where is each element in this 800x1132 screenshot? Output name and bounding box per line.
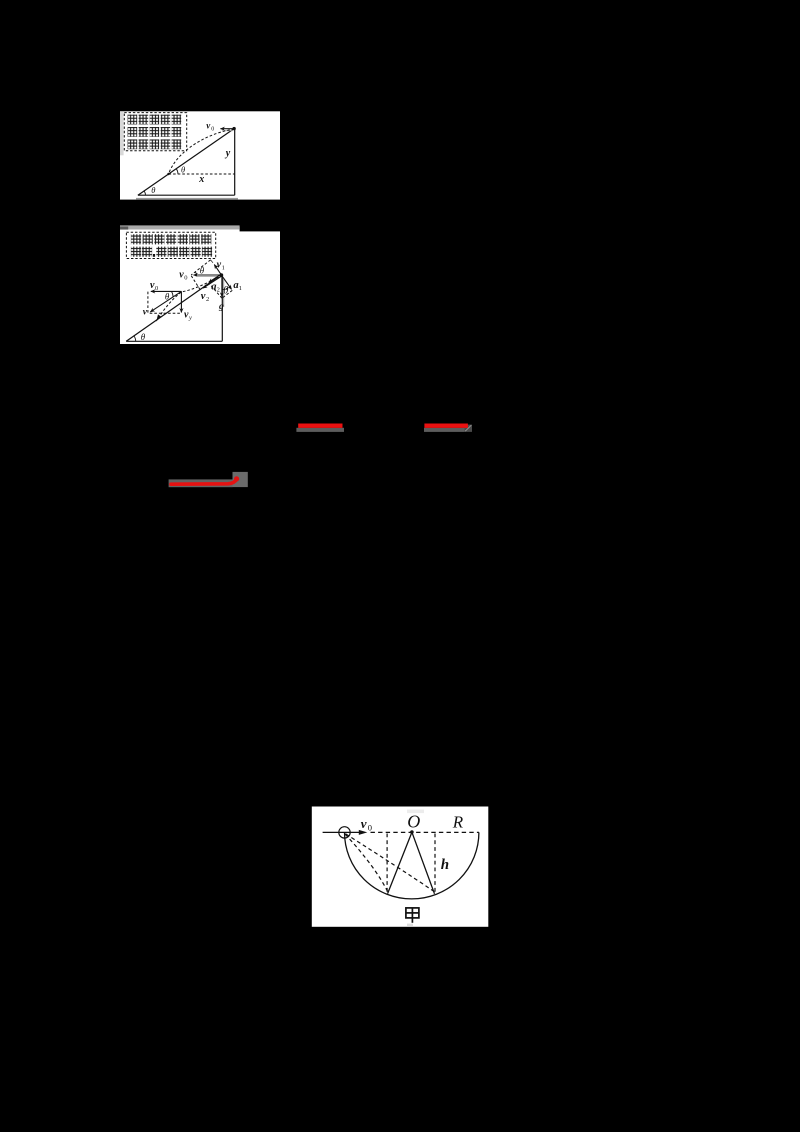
figure2 M dashed vertical (147, 292, 149, 314)
figure2 M dashed horizontal (150, 312, 182, 314)
figure3 white box (312, 807, 489, 927)
figure2 top grey strip (120, 225, 240, 229)
figure1 trajectory dashed (169, 129, 235, 174)
figure2 apex v0 arrow (194, 274, 222, 276)
svg-text:0: 0 (368, 823, 372, 833)
figure3 O dot (410, 830, 414, 834)
figure2 g arrow (221, 276, 223, 297)
red mark3 stroke (171, 479, 237, 485)
figure2 caption line2 抛出,离斜面最远 (131, 247, 212, 257)
figure2 v1 arrow (214, 265, 221, 275)
figure3 v0 arrowhead (359, 830, 368, 835)
red mark2 grey corner (465, 425, 473, 432)
red mark1 grey shadow (296, 428, 344, 432)
figure2 a1 arrow (221, 275, 231, 289)
figure1 white box (120, 111, 280, 199)
svg-text:θ: θ (223, 285, 228, 296)
figure2 apex dot (220, 273, 224, 277)
figure1 caption line2 水平抛出且 (128, 127, 182, 137)
figure1 incline (138, 129, 234, 196)
red mark2 grey shadow (424, 428, 465, 432)
red mark1 bar (298, 424, 342, 428)
figure3 chord line O-P1 (388, 832, 412, 893)
svg-text:θ: θ (151, 185, 155, 195)
figure2 dashed line C to B (191, 260, 210, 275)
figure1 theta arc bottom (144, 191, 145, 195)
figure3 dashed vertical 2 (434, 834, 436, 893)
svg-text:0: 0 (184, 275, 187, 282)
figure2 caption line1 从斜面顶点水平 (131, 234, 211, 244)
svg-text:y: y (188, 315, 192, 322)
figure2 white notch top-left (120, 227, 240, 233)
figure2 dashed perpendicular from B (191, 276, 200, 290)
figure2 base line (126, 340, 222, 342)
figure3 jia character (406, 908, 419, 923)
figure2 v2 arrow (203, 276, 222, 288)
figure1 bottom grey line (136, 198, 238, 200)
svg-text:v: v (361, 816, 367, 831)
figure3 trajectory A dashed (345, 834, 388, 893)
svg-text:2: 2 (217, 286, 220, 293)
figure2 v1 thin extension to C (211, 260, 214, 263)
figure2 M vy arrow (180, 291, 182, 312)
figure3 faint grey patch above O (407, 810, 424, 814)
figure2 theta arc bottom (134, 336, 136, 341)
figure2 dashed caption box (126, 232, 215, 258)
figure2 M v arrow (150, 291, 181, 312)
figure2 g grey shadow (223, 278, 224, 307)
svg-text:θ: θ (165, 291, 170, 301)
figure2 right vertical edge (221, 275, 223, 342)
figure1 apex dot (232, 127, 235, 130)
svg-text:y: y (225, 148, 231, 159)
svg-text:θ: θ (200, 266, 205, 276)
svg-text:0: 0 (211, 126, 214, 132)
red mark2 bar (424, 424, 468, 428)
red mark3 grey strip (169, 479, 233, 487)
svg-text:g: g (218, 302, 224, 312)
figure2 dashed gtip to a2tip (209, 283, 222, 298)
figure1 caption line1 从斜面顶点 (128, 115, 182, 125)
svg-text:O: O (407, 812, 420, 832)
figure2 dashed theta arc g-a1 (222, 287, 230, 290)
figure1 landing dot (167, 173, 169, 175)
figure1 left grey strip (120, 111, 124, 155)
figure1 caption line3 落在斜面上 (128, 139, 182, 149)
figure2 white box (120, 231, 280, 344)
figure1 right vertical edge (234, 129, 236, 196)
figure3 solid left line (323, 831, 360, 833)
figure2 M theta arc (171, 291, 173, 297)
svg-text:θ: θ (181, 165, 185, 175)
figure2 top grey strip dark cap (120, 227, 128, 230)
figure3 semicircle (345, 832, 479, 899)
figure2 incline (126, 275, 221, 342)
figure2 theta arc near B (195, 272, 196, 275)
figure2 trajectory dashed (158, 277, 220, 319)
svg-text:R: R (452, 812, 464, 831)
figure1 v0 arrow (221, 128, 234, 130)
svg-text:2: 2 (206, 296, 209, 303)
figure1 dashed caption box (124, 113, 186, 151)
red mark3 grey square (233, 472, 248, 487)
figure1 base line (138, 194, 235, 196)
figure3 dashed diameter (371, 831, 479, 833)
figure3 dashed vertical 1 (386, 834, 388, 892)
svg-text:v: v (201, 291, 206, 302)
svg-text:0: 0 (155, 285, 158, 292)
figure2 apex v0 grey shadow (196, 275, 220, 278)
figure2 M v0 arrow (151, 290, 182, 292)
figure2 trajectory arrowhead (156, 314, 161, 321)
figure1 landing horizontal dashed (169, 173, 235, 175)
figure2 dashed a1tip to gtip (222, 290, 232, 298)
figure3 ball (339, 827, 350, 838)
svg-text:x: x (198, 174, 204, 185)
svg-text:1: 1 (239, 285, 242, 292)
figure3 grey smudge below jia (407, 924, 413, 926)
figure2 a2 arrow (209, 274, 221, 282)
svg-text:1: 1 (222, 264, 225, 271)
svg-text:θ: θ (141, 332, 146, 342)
figure1 v0 grey shadow (222, 129, 233, 132)
svg-text:h: h (441, 857, 449, 873)
red mark3 blob (234, 476, 239, 481)
figure1 theta arc at landing (176, 169, 178, 174)
figure3 chord line O-P2 (412, 832, 435, 894)
figure3 trajectory B dashed (346, 834, 435, 892)
